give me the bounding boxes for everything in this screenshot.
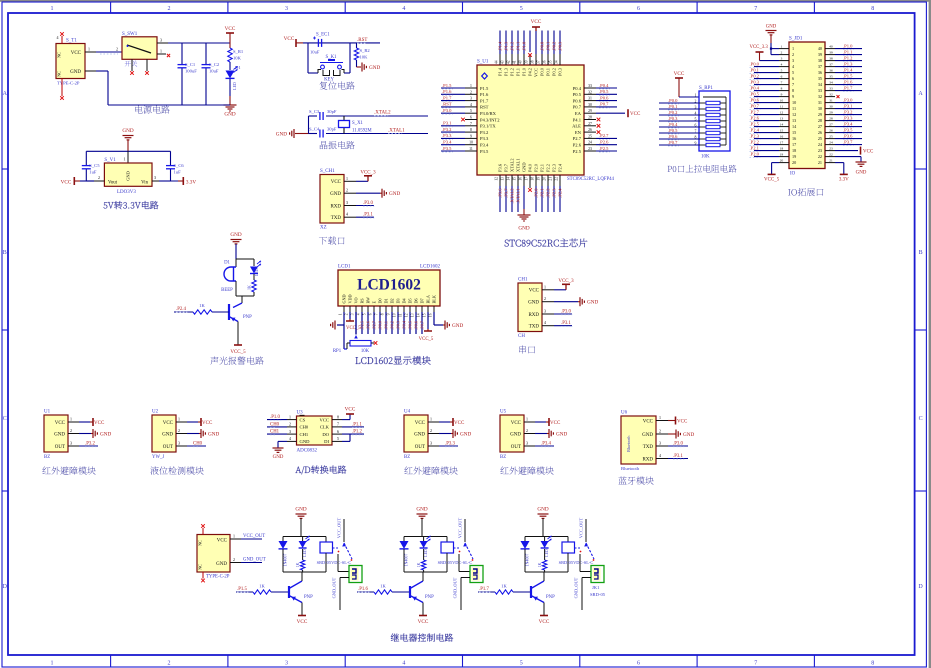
svg-text:.P0.1: .P0.1 <box>750 67 760 72</box>
svg-text:.P0.5: .P0.5 <box>668 128 678 133</box>
svg-text:S_U1: S_U1 <box>477 60 489 65</box>
svg-text:.P3.0: .P3.0 <box>363 201 373 206</box>
svg-text:7: 7 <box>754 660 757 666</box>
svg-text:.P3.4: .P3.4 <box>843 121 853 126</box>
svg-text:P3.0/RX: P3.0/RX <box>480 111 497 116</box>
svg-text:2: 2 <box>470 90 472 94</box>
svg-text:GND: GND <box>224 112 235 118</box>
svg-text:GND: GND <box>528 301 539 306</box>
svg-text:SRD-05VDC-SL-C: SRD-05VDC-SL-C <box>559 560 594 565</box>
svg-text:VCC: VCC <box>55 421 66 426</box>
svg-text:GND: GND <box>330 192 341 197</box>
svg-text:13: 13 <box>501 177 505 181</box>
svg-text:30pF: 30pF <box>327 109 337 114</box>
svg-text:19: 19 <box>537 177 541 181</box>
svg-text:RW: RW <box>366 297 371 304</box>
svg-text:1: 1 <box>339 313 343 315</box>
svg-text:13: 13 <box>792 118 796 123</box>
svg-text:GND: GND <box>518 226 529 232</box>
svg-text:S_X1: S_X1 <box>352 121 364 126</box>
svg-text:37: 37 <box>829 63 833 67</box>
svg-text:.P0.0: .P0.0 <box>377 321 382 330</box>
svg-text:7: 7 <box>754 6 757 12</box>
svg-text:GND_OUT: GND_OUT <box>243 558 266 563</box>
svg-text:.P2.7: .P2.7 <box>599 133 609 138</box>
svg-text:2: 2 <box>168 660 171 666</box>
svg-text:2: 2 <box>526 428 528 433</box>
svg-text:.P0.0: .P0.0 <box>750 61 760 66</box>
svg-text:.P0.3: .P0.3 <box>557 41 562 51</box>
svg-text:36: 36 <box>829 69 833 73</box>
svg-text:29: 29 <box>829 111 833 115</box>
svg-text:P2.1: P2.1 <box>540 164 545 172</box>
svg-text:.P1.5: .P1.5 <box>237 587 247 592</box>
svg-text:17: 17 <box>792 142 796 147</box>
svg-text:VO: VO <box>354 297 359 303</box>
svg-text:LCD1602: LCD1602 <box>420 265 441 270</box>
svg-text:4: 4 <box>289 436 291 441</box>
svg-text:D1: D1 <box>235 65 241 70</box>
svg-text:VCC: VCC <box>643 419 654 424</box>
svg-text:2: 2 <box>792 52 794 57</box>
svg-text:20: 20 <box>780 159 784 163</box>
svg-text:36: 36 <box>543 60 547 64</box>
svg-text:32: 32 <box>818 94 822 99</box>
svg-text:1: 1 <box>70 417 72 422</box>
svg-text:3: 3 <box>526 441 528 446</box>
svg-text:.P2.0: .P2.0 <box>750 151 760 156</box>
svg-text:41: 41 <box>513 60 517 64</box>
svg-text:1N4007: 1N4007 <box>525 554 530 567</box>
svg-text:6: 6 <box>792 76 794 81</box>
svg-text:1K: 1K <box>259 584 265 589</box>
svg-text:.XTAL1: .XTAL1 <box>388 129 405 134</box>
svg-text:3: 3 <box>659 441 661 446</box>
svg-text:.P0.3: .P0.3 <box>668 116 678 121</box>
svg-text:1: 1 <box>51 6 54 12</box>
svg-text:E: E <box>372 301 377 304</box>
svg-text:18: 18 <box>780 147 784 151</box>
svg-text:S_T1: S_T1 <box>66 39 77 44</box>
svg-text:XTAL1: XTAL1 <box>516 158 521 172</box>
svg-text:.P3.1: .P3.1 <box>561 321 571 326</box>
svg-text:11: 11 <box>469 147 473 151</box>
svg-text:GND: GND <box>342 294 347 303</box>
svg-text:GND: GND <box>300 439 311 444</box>
svg-text:PNP: PNP <box>546 595 555 600</box>
svg-text:D6: D6 <box>414 298 419 303</box>
svg-text:P0.2: P0.2 <box>552 68 557 76</box>
svg-text:35: 35 <box>818 76 822 81</box>
svg-text:GND: GND <box>70 70 81 75</box>
svg-text:D7: D7 <box>420 298 425 303</box>
svg-text:P3.7: P3.7 <box>504 163 509 172</box>
svg-text:11: 11 <box>780 105 784 109</box>
svg-text:.P3.4: .P3.4 <box>541 442 551 447</box>
svg-text:CLK: CLK <box>320 425 330 430</box>
svg-text:.P0.6: .P0.6 <box>599 95 609 100</box>
svg-text:17: 17 <box>780 141 784 145</box>
svg-text:S_C3: S_C3 <box>309 109 320 114</box>
svg-text:GND_OUT: GND_OUT <box>332 577 337 598</box>
svg-text:12: 12 <box>780 111 784 115</box>
svg-text:A: A <box>3 91 8 97</box>
svg-text:SRD-05VDC-SL-C: SRD-05VDC-SL-C <box>317 560 352 565</box>
svg-text:.P2.6: .P2.6 <box>365 321 370 330</box>
svg-text:D: D <box>918 584 923 590</box>
svg-text:11: 11 <box>399 313 403 317</box>
svg-text:28: 28 <box>829 117 833 121</box>
svg-text:.P3.1: .P3.1 <box>843 103 853 108</box>
svg-text:.P1.7: .P1.7 <box>479 587 489 592</box>
svg-text:.P1.6: .P1.6 <box>442 89 452 94</box>
svg-text:10K: 10K <box>361 349 370 354</box>
svg-text:23: 23 <box>818 148 822 153</box>
svg-text:GND: GND <box>856 171 867 176</box>
svg-text:3: 3 <box>160 38 162 43</box>
svg-text:.P0.1: .P0.1 <box>383 321 388 330</box>
svg-text:26: 26 <box>829 129 833 133</box>
svg-text:ALE: ALE <box>572 124 581 129</box>
svg-text:6: 6 <box>369 313 373 315</box>
svg-text:8: 8 <box>381 313 385 315</box>
svg-text:.P3.3: .P3.3 <box>843 115 853 120</box>
svg-text:U1: U1 <box>44 410 51 415</box>
svg-text:P4.2: P4.2 <box>528 68 533 76</box>
svg-text:VCC: VCC <box>217 539 228 544</box>
svg-text:12: 12 <box>405 313 409 317</box>
svg-text:LED: LED <box>545 549 549 557</box>
svg-text:P2.7: P2.7 <box>573 136 582 141</box>
svg-text:GND: GND <box>389 191 400 197</box>
svg-text:LCD1: LCD1 <box>338 265 351 270</box>
svg-text:3: 3 <box>178 441 180 446</box>
svg-text:1: 1 <box>526 417 528 422</box>
svg-text:P2.4: P2.4 <box>558 163 563 172</box>
svg-text:2: 2 <box>116 47 118 52</box>
svg-text:VCC: VCC <box>677 419 688 424</box>
svg-text:2: 2 <box>168 6 171 12</box>
svg-text:.P1.4: .P1.4 <box>843 67 853 72</box>
svg-text:U4: U4 <box>404 410 411 415</box>
svg-text:VCC_OUT: VCC_OUT <box>243 534 265 539</box>
svg-text:20: 20 <box>543 177 547 181</box>
svg-text:.P0.1: .P0.1 <box>668 104 678 109</box>
svg-text:15: 15 <box>792 130 796 135</box>
svg-text:VCC_5: VCC_5 <box>230 350 246 355</box>
svg-text:10: 10 <box>780 99 784 103</box>
svg-text:23: 23 <box>588 147 592 151</box>
svg-text:S_C1: S_C1 <box>185 62 196 67</box>
svg-text:GND: GND <box>208 431 219 437</box>
svg-text:.P2.6: .P2.6 <box>599 140 609 145</box>
svg-text:9: 9 <box>781 93 783 97</box>
svg-text:.P3.1: .P3.1 <box>363 213 373 218</box>
svg-text:1: 1 <box>792 46 794 51</box>
svg-text:DI: DI <box>324 439 329 444</box>
svg-text:.XTAL1: .XTAL1 <box>515 189 520 204</box>
svg-text:ADC0832: ADC0832 <box>297 449 318 454</box>
svg-text:.P0.0: .P0.0 <box>539 41 544 51</box>
svg-text:10uF: 10uF <box>209 69 219 74</box>
svg-text:GND: GND <box>522 162 527 172</box>
svg-text:U2: U2 <box>152 410 159 415</box>
svg-text:9: 9 <box>792 94 794 99</box>
svg-text:9: 9 <box>387 313 391 315</box>
svg-text:7: 7 <box>337 422 339 427</box>
svg-text:.XTAL2: .XTAL2 <box>374 111 391 116</box>
svg-text:CH1: CH1 <box>518 278 528 283</box>
svg-text:EA: EA <box>575 111 582 116</box>
svg-text:2: 2 <box>346 188 348 193</box>
svg-text:.P3.7: .P3.7 <box>503 188 508 198</box>
svg-text:25: 25 <box>829 135 833 139</box>
svg-text:VCC: VCC <box>674 71 685 77</box>
svg-text:14: 14 <box>507 177 511 181</box>
svg-text:.P0.7: .P0.7 <box>599 102 609 107</box>
svg-text:7: 7 <box>792 82 794 87</box>
svg-text:.P2.4: .P2.4 <box>557 188 562 198</box>
svg-text:8: 8 <box>871 6 874 12</box>
svg-text:25: 25 <box>588 134 592 138</box>
svg-text:GND: GND <box>295 507 306 513</box>
svg-text:PNP: PNP <box>425 595 434 600</box>
svg-text:.P3.0: .P3.0 <box>843 97 853 102</box>
svg-text:GND: GND <box>162 432 173 437</box>
svg-text:.P0.6: .P0.6 <box>668 134 678 139</box>
svg-text:GND: GND <box>230 232 241 238</box>
svg-text:20: 20 <box>792 160 796 165</box>
svg-text:34: 34 <box>555 60 559 64</box>
svg-text:IO: IO <box>790 172 796 177</box>
svg-text:37: 37 <box>818 64 822 69</box>
svg-text:NC: NC <box>57 52 62 58</box>
svg-text:16: 16 <box>780 135 784 139</box>
svg-text:10: 10 <box>469 141 473 145</box>
svg-text:3: 3 <box>470 97 472 101</box>
svg-text:XTAL2: XTAL2 <box>510 158 515 172</box>
svg-text:P0.1: P0.1 <box>546 68 551 76</box>
svg-text:P1.7: P1.7 <box>480 98 489 103</box>
svg-text:5: 5 <box>520 660 523 666</box>
svg-text:.P2.3: .P2.3 <box>750 133 760 138</box>
svg-text:30: 30 <box>588 103 592 107</box>
svg-text:PNP: PNP <box>243 315 252 320</box>
svg-text:32: 32 <box>829 93 833 97</box>
svg-text:5: 5 <box>363 313 367 315</box>
svg-text:VCC_3: VCC_3 <box>360 170 376 175</box>
svg-text:3.3V: 3.3V <box>839 178 849 183</box>
svg-text:.P0.6: .P0.6 <box>750 97 760 102</box>
svg-text:P3.5: P3.5 <box>480 149 489 154</box>
svg-text:8: 8 <box>871 660 874 666</box>
svg-text:GND: GND <box>416 507 427 513</box>
svg-text:7: 7 <box>781 81 783 85</box>
svg-text:P1.5: P1.5 <box>480 86 489 91</box>
svg-text:.P3.3: .P3.3 <box>442 133 452 138</box>
svg-text:35: 35 <box>829 75 833 79</box>
svg-text:38: 38 <box>829 57 833 61</box>
svg-text:U6: U6 <box>621 411 628 416</box>
svg-text:DO: DO <box>322 432 329 437</box>
svg-text:Vin: Vin <box>141 181 149 186</box>
svg-text:1: 1 <box>659 415 661 420</box>
svg-text:.P0.2: .P0.2 <box>750 73 760 78</box>
svg-text:P2.6: P2.6 <box>573 143 582 148</box>
svg-text:YW_J: YW_J <box>152 455 164 460</box>
svg-text:GND: GND <box>216 562 227 567</box>
svg-text:43: 43 <box>501 60 505 64</box>
svg-text:1: 1 <box>233 534 235 539</box>
svg-text:2: 2 <box>289 422 291 427</box>
svg-text:3: 3 <box>781 57 783 61</box>
svg-text:1: 1 <box>51 660 54 666</box>
svg-text:1K: 1K <box>199 303 205 308</box>
svg-text:.P3.3: .P3.3 <box>445 442 455 447</box>
svg-text:1uF: 1uF <box>174 170 182 175</box>
svg-text:S_C2: S_C2 <box>209 62 220 67</box>
svg-text:P0.4: P0.4 <box>573 86 582 91</box>
svg-text:.P0.7: .P0.7 <box>419 321 424 330</box>
svg-text:RXD: RXD <box>642 457 653 462</box>
svg-text:1: 1 <box>470 84 472 88</box>
svg-text:VCC: VCC <box>94 421 105 426</box>
svg-text:4: 4 <box>781 63 783 67</box>
svg-text:P1.4: P1.4 <box>498 67 503 76</box>
svg-text:16: 16 <box>519 177 523 181</box>
svg-text:12: 12 <box>495 177 499 181</box>
svg-text:.P0.2: .P0.2 <box>389 321 394 330</box>
svg-text:.P1.4: .P1.4 <box>497 41 502 51</box>
svg-text:LED: LED <box>232 82 237 90</box>
svg-text:.P0.0: .P0.0 <box>668 98 678 103</box>
svg-text:VCC_OUT: VCC_OUT <box>337 518 342 539</box>
svg-text:5: 5 <box>337 436 339 441</box>
svg-text:3: 3 <box>154 175 156 180</box>
svg-text:1K: 1K <box>538 562 542 567</box>
svg-text:P3.3: P3.3 <box>480 136 489 141</box>
svg-text:.P0.2: .P0.2 <box>668 110 678 115</box>
svg-text:VCC: VCC <box>297 619 308 625</box>
svg-text:4: 4 <box>357 313 361 315</box>
svg-text:GND: GND <box>510 432 521 437</box>
svg-text:Bluetooth: Bluetooth <box>621 466 640 471</box>
svg-text:8: 8 <box>792 88 794 93</box>
svg-text:.P1.2: .P1.2 <box>843 55 853 60</box>
svg-text:4: 4 <box>544 320 546 325</box>
svg-text:.P2.4: .P2.4 <box>176 307 186 312</box>
svg-text:3: 3 <box>346 200 348 205</box>
svg-text:GND: GND <box>537 507 548 513</box>
svg-text:TXD: TXD <box>529 325 540 330</box>
svg-text:.P3.1: .P3.1 <box>673 454 683 459</box>
svg-text:1: 1 <box>781 45 783 49</box>
svg-text:OUT: OUT <box>415 445 425 450</box>
svg-text:CH1: CH1 <box>300 432 309 437</box>
svg-text:38: 38 <box>531 60 535 64</box>
svg-text:GND: GND <box>766 25 777 30</box>
svg-text:D1: D1 <box>384 298 389 303</box>
svg-text:VCC: VCC <box>61 180 72 186</box>
svg-text:31: 31 <box>588 97 592 101</box>
svg-text:28: 28 <box>818 118 822 123</box>
svg-text:VCC: VCC <box>531 19 542 25</box>
svg-text:2: 2 <box>70 428 72 433</box>
svg-text:.P3.2: .P3.2 <box>843 109 853 114</box>
svg-text:VCC: VCC <box>454 421 465 426</box>
svg-text:10K: 10K <box>233 56 242 61</box>
svg-text:5: 5 <box>781 69 783 73</box>
svg-text:VCC: VCC <box>534 68 539 77</box>
svg-text:D5: D5 <box>408 298 413 303</box>
svg-text:.P3.6: .P3.6 <box>843 133 853 138</box>
svg-text:42: 42 <box>507 60 511 64</box>
svg-text:B: B <box>919 250 923 256</box>
svg-text:CH: CH <box>518 334 525 339</box>
svg-text:RXD: RXD <box>528 313 539 318</box>
svg-text:1K: 1K <box>247 285 252 290</box>
svg-text:.P1.5: .P1.5 <box>442 83 452 88</box>
svg-text:22: 22 <box>829 153 833 157</box>
svg-text:24: 24 <box>829 141 833 145</box>
svg-text:BZ: BZ <box>500 455 506 460</box>
svg-text:5: 5 <box>792 70 794 75</box>
svg-text:11.0592M: 11.0592M <box>352 129 372 134</box>
svg-text:P3.6: P3.6 <box>498 163 503 172</box>
svg-text:.XTAL2: .XTAL2 <box>509 189 514 204</box>
svg-text:LED: LED <box>254 268 259 276</box>
svg-text:SRD-05VDC-SL-C: SRD-05VDC-SL-C <box>438 560 473 565</box>
svg-text:27: 27 <box>818 124 822 129</box>
svg-text:19: 19 <box>792 154 796 159</box>
svg-text:34: 34 <box>829 81 833 85</box>
svg-text:39: 39 <box>818 52 822 57</box>
svg-text:GND: GND <box>122 128 133 134</box>
svg-text:.P1.6: .P1.6 <box>843 79 853 84</box>
svg-text:.P0.2: .P0.2 <box>551 42 556 51</box>
svg-text:1: 1 <box>124 157 126 162</box>
svg-text:S_RP1: S_RP1 <box>699 86 713 91</box>
svg-text:JK1: JK1 <box>592 585 600 590</box>
svg-text:P0.3: P0.3 <box>558 67 563 76</box>
svg-text:3: 3 <box>285 6 288 12</box>
svg-text:P0.0: P0.0 <box>540 67 545 76</box>
svg-text:P2.3: P2.3 <box>552 163 557 172</box>
svg-text:D3: D3 <box>396 298 401 303</box>
svg-text:3: 3 <box>544 309 546 314</box>
svg-text:27: 27 <box>829 123 833 127</box>
svg-text:CH0: CH0 <box>270 422 280 427</box>
svg-text:S_R1: S_R1 <box>233 49 244 54</box>
svg-text:VCC: VCC <box>550 421 561 426</box>
svg-text:18: 18 <box>531 177 535 181</box>
svg-text:LCD1602: LCD1602 <box>357 277 421 294</box>
svg-text:24: 24 <box>588 141 592 145</box>
svg-text:VCC: VCC <box>511 421 522 426</box>
svg-text:1: 1 <box>695 94 697 98</box>
svg-text:25: 25 <box>818 136 822 141</box>
svg-text:1: 1 <box>544 284 546 289</box>
svg-text:BLK: BLK <box>432 295 437 303</box>
svg-text:.P2.4: .P2.4 <box>750 127 760 132</box>
svg-text:10: 10 <box>393 313 397 317</box>
svg-text:P3.4: P3.4 <box>480 143 489 148</box>
svg-text:D0: D0 <box>378 298 383 303</box>
svg-text:EN: EN <box>575 130 582 135</box>
svg-text:.P1.3: .P1.3 <box>843 61 853 66</box>
svg-text:8: 8 <box>470 128 472 132</box>
svg-text:17: 17 <box>525 177 529 181</box>
